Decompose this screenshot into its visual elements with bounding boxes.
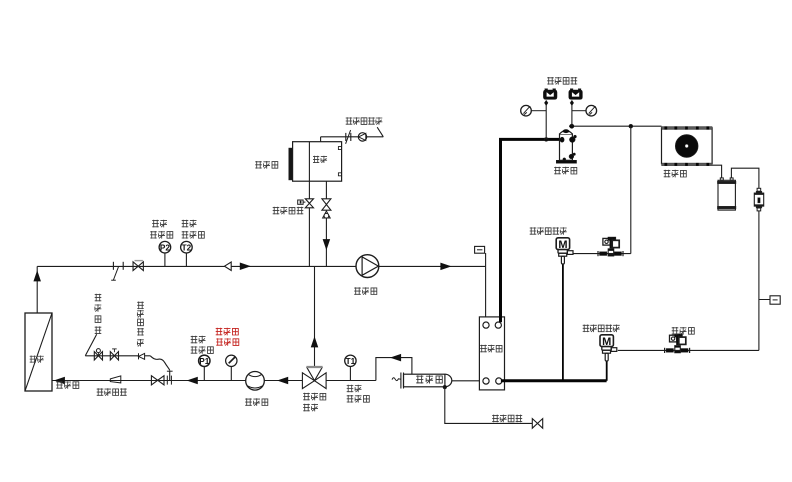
label 水箱	[313, 156, 327, 163]
label 电磁阀	[672, 327, 695, 335]
label 负载	[30, 356, 44, 363]
svg-text:P2: P2	[160, 243, 170, 252]
condenser 冷凝器	[662, 127, 713, 166]
electronic expansion valve 2 电子膨胀阀	[600, 335, 617, 361]
heater 加热器 body	[392, 373, 452, 389]
label 电子膨胀阀 (upper)	[530, 227, 567, 235]
label 宝塔接头	[97, 388, 127, 396]
needle valve with round handle	[94, 349, 102, 360]
label 电子膨胀阀 (lower)	[583, 325, 620, 333]
electric ball valve 1	[543, 89, 557, 140]
check valve triangle	[323, 211, 331, 218]
pointer pressure gauge	[226, 355, 237, 380]
pipe: EEV2-solenoid line	[618, 349, 759, 351]
label 进液口	[56, 381, 79, 389]
flow arrow up on riser	[34, 272, 40, 282]
valve with T handle	[110, 349, 118, 360]
water tank 水箱 box	[293, 142, 342, 182]
tank right-edge fitting upper	[338, 147, 341, 150]
pipe: air source diagonal	[85, 334, 96, 356]
thick pipe: liquid line to exchanger	[501, 379, 607, 382]
electronic expansion valve 1 电子膨胀阀	[556, 238, 573, 264]
pipe: tank top fill line	[321, 127, 384, 142]
pipe: discharge line	[569, 125, 662, 127]
variable-frequency pump 变频泵	[356, 255, 379, 278]
pagoda fitting 宝塔接头	[110, 376, 121, 383]
pipe: pump discharge	[379, 265, 486, 267]
label 流量计	[245, 398, 268, 406]
pressure gauge left	[521, 105, 547, 116]
label 温度计 (T2)	[182, 231, 205, 239]
pressure transmitter P1 circle	[199, 355, 210, 380]
pipe: condenser outlet	[712, 165, 722, 178]
label 排液管路	[492, 415, 522, 423]
pipe: EEV2 outlet drop	[606, 361, 608, 381]
label 压缩机	[554, 167, 577, 175]
label 电动球阀 (compressor)	[547, 77, 577, 85]
liquid level mirror 液位镜	[289, 148, 293, 180]
label 压力表 (red)	[216, 338, 239, 346]
pipe: bypass riser to 3-way valve	[314, 266, 316, 367]
svg-text:T2: T2	[182, 243, 192, 252]
pipe union on fill line	[346, 130, 351, 144]
auto refill pump 自动补液泵	[358, 133, 366, 141]
pipe: EEV1 outlet drop	[562, 264, 564, 381]
proportional 3-way valve 比例三通阀	[302, 367, 326, 389]
pipe: receiver to filter drier	[731, 168, 759, 188]
pressure gauge right	[572, 105, 597, 116]
label 电动球阀 (tank)	[273, 207, 304, 215]
pipe: air purge line	[85, 355, 150, 357]
valve on tank outlet	[322, 199, 331, 210]
sensor tap box on drop pipe	[475, 246, 486, 266]
pressure transmitter P2 circle	[159, 241, 171, 266]
svg-text:P1: P1	[199, 357, 209, 366]
pipe union with slash (top-left)	[111, 262, 123, 280]
electric ball valve under tank	[298, 199, 314, 208]
filter drier	[754, 188, 763, 211]
sensor tap box right	[759, 296, 780, 304]
label 变送器 (P1)	[191, 346, 214, 354]
heat exchanger 换热器 box	[479, 317, 504, 390]
pipe: top return line	[37, 265, 356, 267]
pipe: branch down to EEV line	[630, 126, 632, 253]
liquid receiver	[717, 178, 736, 210]
junction dot discharge branch	[629, 124, 633, 128]
junction dot at heater outlet	[443, 385, 447, 389]
flow arrow right after pump	[441, 263, 451, 269]
label 回液 (T2)	[182, 220, 197, 228]
label 冷凝器	[664, 170, 687, 178]
label 液位镜	[255, 161, 278, 169]
svg-text:T1: T1	[346, 357, 356, 366]
junction dot on discharge at ball-valve-2	[570, 124, 574, 128]
condenser fan	[675, 135, 698, 158]
thermometer T1 circle	[345, 355, 356, 380]
flow arrow left after flow meter	[278, 377, 288, 383]
label 压力 (P1)	[191, 336, 206, 344]
exchanger port circles	[483, 322, 502, 384]
pipe: bottom supply line	[52, 380, 302, 382]
pipe: drop to heat exchanger	[485, 266, 487, 322]
compressor 压缩机	[556, 129, 576, 163]
label 压力 (P2)	[152, 220, 167, 228]
label 出液 (T1)	[347, 385, 362, 393]
solenoid/sight glass upper	[598, 237, 623, 256]
pipe: 3-way to heater segment	[326, 380, 376, 382]
flow arrow right on return line	[240, 263, 250, 269]
open check arrow on return line	[225, 262, 232, 271]
thermometer T2 circle	[181, 241, 193, 266]
label 气管单向阀 (vertical)	[137, 302, 144, 347]
label 温度计 (T1)	[347, 395, 370, 403]
flow arrow down on tank outlet	[323, 240, 329, 250]
thick pipe: suction line to compressor	[501, 139, 563, 322]
pipe: tank outlet line	[325, 181, 327, 266]
junction dot suction/ball-valve-1	[544, 137, 548, 141]
drain valve	[532, 419, 542, 429]
label 变送器 (P2)	[150, 231, 173, 239]
label 指针式 (red)	[216, 328, 239, 336]
label 换热器	[480, 345, 502, 353]
label 外接气源 (vertical)	[95, 294, 102, 334]
gate valve on return line	[133, 261, 143, 271]
flexible hose to supply line	[150, 356, 172, 381]
pipe: drain line 排液管路	[445, 387, 533, 423]
pipe: filter drier down-comer	[758, 211, 760, 351]
pipe: EEV1-solenoid line	[574, 253, 631, 255]
label 比例三	[303, 393, 326, 401]
label 通阀	[303, 404, 318, 412]
air check valve 单向阀	[139, 353, 145, 359]
hose coupling ticks	[167, 376, 171, 385]
pipe: load outlet riser	[36, 266, 38, 313]
label 自动补液泵	[346, 117, 383, 125]
flow meter 流量计	[246, 372, 265, 391]
main hand valve on supply line	[151, 376, 164, 385]
flow arrow up on bypass riser	[311, 338, 317, 348]
label 变频泵	[354, 287, 377, 295]
load 负载 box	[25, 313, 52, 391]
tank right-edge fitting lower	[338, 173, 341, 176]
solenoid valve 电磁阀	[665, 334, 690, 353]
flow arrow left before P1	[188, 377, 198, 383]
pipe: tank dip line	[308, 142, 310, 267]
label 加热器	[416, 375, 442, 383]
flow arrow left on heater jog	[391, 354, 401, 360]
electric ball valve 2	[569, 89, 583, 127]
pipe: heater to exchanger	[452, 380, 483, 382]
pipe: heater outlet jog	[376, 358, 412, 381]
flow arrow into load	[55, 377, 65, 383]
